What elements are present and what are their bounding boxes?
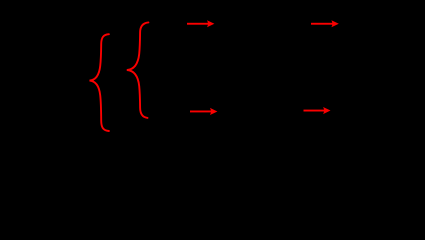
brace B1 (outer left curly brace, red)	[90, 34, 109, 131]
arrow A2 (top-right red right-arrow)	[311, 20, 339, 27]
brace B2 (inner left curly brace, red)	[127, 22, 149, 118]
arrow A4 (bottom-right red right-arrow)	[304, 107, 331, 114]
arrow A1 (top-left red right-arrow)	[187, 20, 214, 27]
arrow A3 (bottom-left red right-arrow)	[190, 108, 217, 115]
